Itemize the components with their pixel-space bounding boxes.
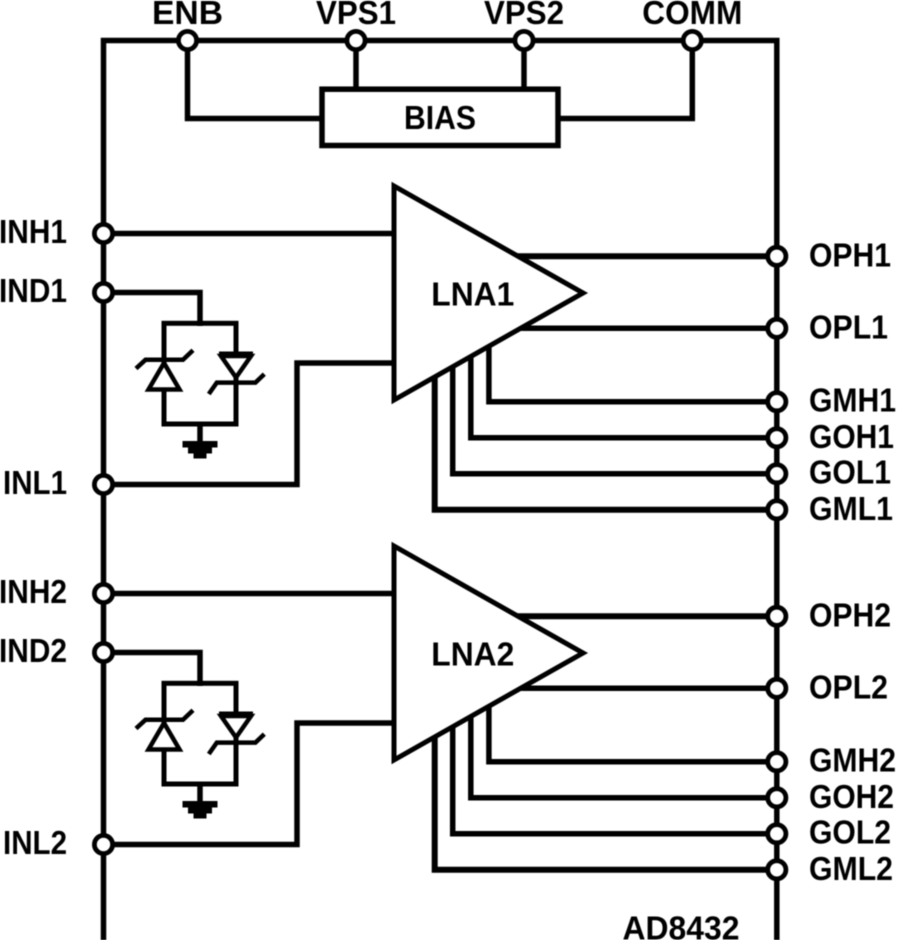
svg-text:IND1: IND1 bbox=[0, 272, 67, 309]
svg-text:OPH1: OPH1 bbox=[809, 236, 891, 273]
svg-text:INL1: INL1 bbox=[3, 464, 67, 501]
svg-text:COMM: COMM bbox=[642, 0, 742, 31]
svg-text:GMH2: GMH2 bbox=[809, 742, 896, 779]
svg-text:BIAS: BIAS bbox=[404, 99, 476, 136]
svg-text:AD8432: AD8432 bbox=[623, 910, 740, 940]
svg-text:OPL2: OPL2 bbox=[809, 668, 888, 705]
svg-text:ENB: ENB bbox=[152, 0, 223, 31]
svg-text:INH1: INH1 bbox=[0, 213, 67, 250]
svg-text:INL2: INL2 bbox=[3, 824, 67, 861]
svg-text:GOL1: GOL1 bbox=[809, 454, 891, 491]
svg-text:GMH1: GMH1 bbox=[809, 382, 896, 419]
svg-text:GOH2: GOH2 bbox=[809, 778, 894, 815]
svg-text:LNA1: LNA1 bbox=[431, 276, 514, 313]
svg-text:GML1: GML1 bbox=[809, 490, 893, 527]
svg-text:GOH1: GOH1 bbox=[809, 418, 894, 455]
svg-text:INH2: INH2 bbox=[0, 573, 67, 610]
svg-text:GML2: GML2 bbox=[809, 850, 893, 887]
svg-text:GOL2: GOL2 bbox=[809, 814, 891, 851]
svg-text:IND2: IND2 bbox=[0, 632, 67, 669]
svg-text:VPS1: VPS1 bbox=[316, 0, 396, 31]
svg-text:LNA2: LNA2 bbox=[431, 636, 514, 673]
svg-text:OPH2: OPH2 bbox=[809, 596, 891, 633]
svg-text:OPL1: OPL1 bbox=[809, 308, 888, 345]
svg-text:VPS2: VPS2 bbox=[484, 0, 564, 31]
